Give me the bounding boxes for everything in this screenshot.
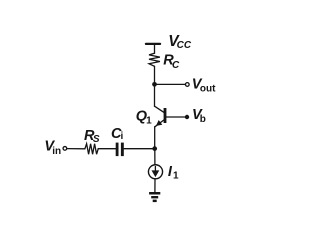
VCC supply bar xyxy=(146,43,160,45)
label I1 xyxy=(168,164,179,182)
wire: RS to Vin terminal xyxy=(67,148,85,150)
label Vb xyxy=(192,107,206,125)
svg-text:CC: CC xyxy=(177,40,192,51)
resistor RS xyxy=(85,144,98,155)
svg-text:out: out xyxy=(200,83,216,94)
label RS xyxy=(84,128,100,145)
capacitor Ci plates xyxy=(116,143,119,157)
node: emitter / input junction xyxy=(152,146,157,151)
transistor Q1 emitter lead xyxy=(155,120,164,127)
transistor Q1 base bar xyxy=(164,108,167,123)
svg-text:C: C xyxy=(172,60,180,71)
terminal Vin (open circle) xyxy=(63,147,67,151)
label VCC xyxy=(168,33,192,51)
wire: RC to collector node xyxy=(154,66,156,106)
wire: emitter down to input junction xyxy=(154,127,156,149)
svg-text:1: 1 xyxy=(173,171,179,182)
label Q1 xyxy=(136,109,152,127)
resistor RC xyxy=(149,53,160,66)
ground xyxy=(149,192,160,202)
wire: junction down to current source xyxy=(154,149,156,165)
svg-text:b: b xyxy=(200,114,206,125)
svg-text:1: 1 xyxy=(146,115,152,126)
svg-text:in: in xyxy=(52,146,61,157)
transistor Q1 emitter arrow xyxy=(156,120,162,126)
svg-text:S: S xyxy=(93,134,100,145)
wire: current source to ground xyxy=(154,179,156,192)
wire: VCC bar to RC xyxy=(154,44,156,53)
label Vout xyxy=(192,77,216,95)
wire: node to Vout terminal xyxy=(155,83,186,85)
node: collector / Vout junction xyxy=(152,82,157,87)
current source I1 circle xyxy=(148,165,162,179)
label Ci xyxy=(111,126,124,142)
label Vin xyxy=(44,139,61,158)
transistor Q1 collector lead xyxy=(155,106,165,112)
wire: base stub xyxy=(166,116,185,118)
label RC xyxy=(163,53,180,71)
wire: junction to capacitor xyxy=(124,148,155,150)
node Vb (filled dot) xyxy=(185,115,189,119)
svg-text:i: i xyxy=(121,131,124,142)
current source I1 arrow xyxy=(154,167,156,172)
terminal Vout (open circle) xyxy=(185,83,189,87)
wire: capacitor to RS xyxy=(98,148,116,150)
